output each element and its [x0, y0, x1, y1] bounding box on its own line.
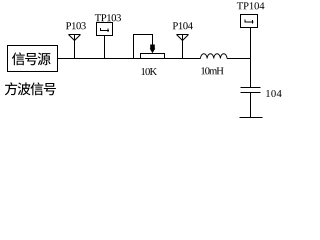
- pin P103: [66, 22, 86, 58]
- wire: capacitor to ground bar: [250, 93, 252, 118]
- test point TP103: [95, 14, 121, 58]
- potentiometer R 10K (wiper tied back to left terminal): [134, 35, 165, 76]
- label 方波信号 (square wave signal): [5, 82, 56, 95]
- wire: TP104 stem down through output node to capacitor: [250, 28, 252, 88]
- signal source box 信号源: [8, 46, 58, 72]
- capacitor C 104: [241, 88, 282, 98]
- pin P104: [173, 22, 193, 58]
- inductor L 10mH: [201, 54, 228, 75]
- test point TP104: [237, 2, 265, 27]
- wire: inductor to output node: [227, 58, 251, 60]
- ground bar: [240, 117, 263, 119]
- wire: main horizontal bus from source to output node: [58, 58, 201, 60]
